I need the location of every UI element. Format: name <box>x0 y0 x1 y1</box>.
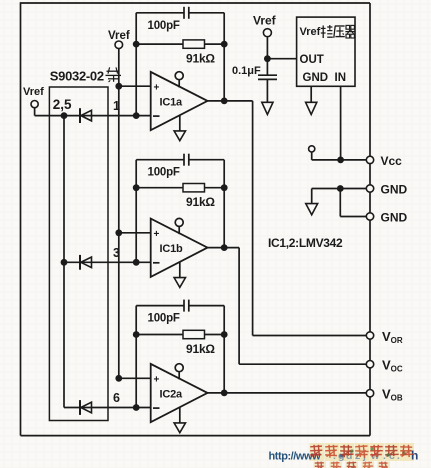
wire: IC1a non-inverting input <box>119 85 151 87</box>
node: feedback joins IC1a inverting input <box>133 112 140 119</box>
wire: Vref terminal stem <box>266 37 268 59</box>
resistor R3 91k (IC1b feedback) <box>136 187 183 189</box>
wire: IC2a output to V_OB <box>208 392 371 394</box>
watermark red stamp row 1 <box>310 445 413 458</box>
terminal Vcc <box>366 156 373 163</box>
wire: outer frame left <box>20 2 22 435</box>
node: IC2a output junction <box>221 390 228 397</box>
capacitor C3 100pF (IC1b feedback) <box>136 159 184 161</box>
svg-text:http://www: http://www <box>269 451 322 463</box>
node: feedback joins IC1b inverting input <box>133 259 140 266</box>
svg-text:GND: GND <box>303 72 329 84</box>
wire: feedback right vertical (IC1b) <box>223 160 225 248</box>
wire: feedback left vertical (IC2a) <box>135 306 137 408</box>
wire: feedback right vertical (IC2a) <box>223 306 225 393</box>
node: IC1b output junction <box>221 244 228 251</box>
wire: node 6 from sensor to IC2a inverting input <box>64 407 151 409</box>
svg-text:OUT: OUT <box>300 54 324 66</box>
wire: right terminal bus vertical <box>369 3 371 436</box>
ground: GND terminal ground symbol <box>306 204 318 215</box>
node: resistor row right junction (IC2a) <box>221 331 228 338</box>
node: IN joins Vcc row <box>337 157 344 164</box>
svg-text:91kΩ: 91kΩ <box>186 195 215 209</box>
terminal VOC <box>366 361 373 368</box>
node: Vref rail junction at IC2a + input <box>115 375 122 382</box>
pin: IC1b V+ supply pin circle <box>175 218 183 226</box>
wire: IC1b non-inverting input <box>119 232 151 234</box>
watermark highlight <box>310 443 415 468</box>
ground: IC2a V- pin to ground <box>179 407 181 423</box>
photodiode D6 (IC2a input) <box>79 400 81 415</box>
wire: regulator IN pin down to Vcc rail <box>340 86 342 160</box>
svg-text:GND: GND <box>381 183 408 197</box>
op-amp IC1a <box>151 72 208 130</box>
capacitor C4 0.1uF decoupling <box>266 59 268 75</box>
wire: GND row 1 <box>312 188 370 190</box>
node: resistor row left junction (IC1b) <box>133 184 140 191</box>
wire: outer frame bottom <box>21 435 371 437</box>
node: Vref / OUT / C4 junction <box>264 55 271 62</box>
svg-text:.: . <box>383 450 386 462</box>
wire: GND row 2 link <box>339 189 341 217</box>
svg-text:Vcc: Vcc <box>381 154 403 168</box>
node: Vref rail junction at IC1b + input <box>115 229 122 236</box>
svg-text:0.1μF: 0.1μF <box>232 65 261 77</box>
voltage regulator U3 Vref稳压器 box <box>297 17 355 86</box>
watermark colour specks <box>339 447 405 457</box>
svg-text:Vref: Vref <box>108 30 130 42</box>
svg-text:+: + <box>154 374 160 385</box>
wire: Vref rail to non-inverting inputs (vertical) <box>118 49 120 378</box>
svg-text:IN: IN <box>335 72 347 84</box>
node: Vref rail junction at IC1a + input <box>115 83 122 90</box>
svg-text:91kΩ: 91kΩ <box>186 342 215 356</box>
pin: IC2a V+ supply pin circle <box>175 364 183 372</box>
svg-text:S9032-02: S9032-02 <box>50 69 104 84</box>
node: resistor row right junction (IC1b) <box>221 184 228 191</box>
svg-text:100pF: 100pF <box>148 167 180 179</box>
svg-text:+: + <box>154 229 160 240</box>
ground: IC1b V- pin to ground <box>179 262 181 278</box>
svg-text:1: 1 <box>113 99 120 113</box>
terminal VOR <box>366 332 373 339</box>
op-amp IC1b <box>151 219 208 277</box>
node: GND rows junction <box>337 185 344 192</box>
terminal GND (1) <box>366 185 373 192</box>
wire: feedback left vertical (IC1a) <box>135 13 137 116</box>
svg-text:.: . <box>397 450 400 462</box>
node 3 junction on common line <box>61 259 68 266</box>
wire: node 1 from sensor to IC1a inverting input <box>35 115 151 117</box>
terminal VOB <box>366 390 373 397</box>
node: resistor row left junction (IC1a) <box>133 41 140 48</box>
node common anode line (pins 2,5) inside sensor <box>63 116 65 408</box>
svg-text:3: 3 <box>113 246 120 260</box>
svg-text:100pF: 100pF <box>148 313 180 325</box>
wire: feedback right vertical (IC1a) <box>223 13 225 101</box>
svg-text:IC2a: IC2a <box>160 388 184 400</box>
wire: node 3 from sensor to IC1b inverting input <box>64 261 151 263</box>
wire: Vref node to regulator OUT <box>267 58 296 60</box>
ground: C4 ground symbol <box>262 102 273 114</box>
wire: IC1b output to V_OC column <box>208 247 240 249</box>
terminal GND (2) <box>366 213 373 220</box>
wire: IC1a output to V_OR column <box>208 100 253 102</box>
node 1 junction on common line <box>61 112 68 119</box>
capacitor C6 100pF (IC2a feedback) <box>136 305 184 307</box>
svg-text:100pF: 100pF <box>148 20 180 32</box>
svg-text:IC1b: IC1b <box>160 243 184 255</box>
photosensor S9032-02 package box <box>49 87 108 421</box>
ground: IC1a V- pin to ground <box>179 115 181 130</box>
terminal: Vcc stub (open circle) <box>309 146 315 152</box>
resistor R1 91k (IC1a feedback) <box>136 43 183 45</box>
svg-text:+: + <box>154 82 160 93</box>
watermark red stamp row 2 <box>315 462 388 468</box>
svg-text:IC1,2:LMV342: IC1,2:LMV342 <box>268 236 343 250</box>
photodiode D1 (IC1a input) <box>79 108 81 123</box>
svg-text:Vref: Vref <box>253 14 277 28</box>
svg-text:Vref: Vref <box>23 86 44 98</box>
pin: IC1a V+ supply pin circle <box>175 72 183 80</box>
capacitor C1 100pF (IC1a feedback) <box>136 12 184 14</box>
photodiode D3 (IC1b input) <box>79 255 81 270</box>
op-amp IC2a <box>151 364 208 422</box>
node: resistor row right junction (IC1a) <box>221 41 228 48</box>
svg-text:6: 6 <box>113 391 120 405</box>
wire: Vref stem down <box>34 108 36 116</box>
wire: feedback left vertical (IC1b) <box>135 160 137 263</box>
wire: regulator GND pin <box>310 86 312 102</box>
node: IC1a output junction <box>221 98 228 105</box>
label 等 (CJK, drawn) <box>106 67 122 82</box>
wire: GND stub down to ground <box>311 189 313 204</box>
svg-text:91kΩ: 91kΩ <box>186 52 215 66</box>
resistor R6 91k (IC2a feedback) <box>136 334 183 336</box>
ground: regulator ground symbol <box>306 102 317 114</box>
svg-text:Vref: Vref <box>300 26 321 38</box>
svg-text:IC1a: IC1a <box>160 96 184 108</box>
wire: IC2a non-inverting input <box>119 377 151 379</box>
wire: Vcc row <box>312 159 370 161</box>
svg-text:2,5: 2,5 <box>53 97 72 112</box>
wire: outer frame top (Vcc rail) <box>21 2 371 4</box>
node: resistor row left junction (IC2a) <box>133 331 140 338</box>
node: feedback joins IC2a inverting input <box>133 404 140 411</box>
svg-text:GND: GND <box>381 211 408 225</box>
